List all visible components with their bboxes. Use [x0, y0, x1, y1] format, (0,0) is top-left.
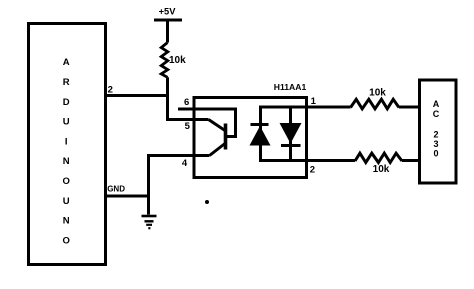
svg-text:6: 6: [184, 97, 189, 108]
LED D2 (pointing down) cathode bar: [281, 144, 301, 147]
LED bridge left rail: [259, 107, 262, 161]
svg-text:+5V: +5V: [159, 6, 177, 16]
opto-isolator U1 H11AA1 box: [194, 98, 307, 178]
svg-text:R: R: [63, 77, 70, 88]
wire ground riser / opto pin 4 (emitter): [149, 156, 210, 215]
svg-text:H11AA1: H11AA1: [274, 82, 307, 92]
wire R2 to AC box: [399, 106, 421, 109]
resistor R3 10k (lower, horizontal zigzag): [355, 153, 402, 162]
Arduino Uno block U-ARD: [29, 24, 106, 265]
svg-text:GND: GND: [107, 185, 125, 194]
transistor Q1 collector diagonal: [209, 120, 226, 131]
wire pin 1 line with top LED bar: [259, 106, 351, 109]
wire node A down to opto pin 5 (collector): [168, 77, 209, 119]
LED D1 (pointing up) triangle: [250, 126, 271, 146]
svg-text:2: 2: [310, 165, 315, 176]
svg-text:4: 4: [182, 158, 188, 169]
wire pin 6 stub and base connection: [178, 109, 236, 137]
svg-text:5: 5: [185, 121, 191, 132]
svg-text:2: 2: [108, 84, 113, 95]
wire +5V to resistor R1: [166, 20, 169, 43]
svg-text:C: C: [433, 109, 440, 119]
svg-text:10k: 10k: [369, 88, 386, 99]
LED D2 (pointing down) triangle: [280, 123, 302, 144]
svg-text:10k: 10k: [373, 164, 390, 175]
wire R3 to AC box: [402, 159, 421, 162]
svg-text:0: 0: [433, 149, 438, 159]
AC 230 source block: [420, 80, 457, 183]
svg-text:2: 2: [433, 130, 438, 140]
svg-text:N: N: [63, 216, 70, 227]
svg-text:10k: 10k: [169, 55, 186, 66]
svg-text:N: N: [63, 156, 70, 167]
svg-text:1: 1: [311, 96, 317, 107]
svg-text:O: O: [63, 236, 70, 247]
svg-text:U: U: [63, 196, 70, 207]
svg-text:3: 3: [433, 139, 438, 149]
wire GND pin of Arduino: [106, 195, 149, 198]
wire pin 2 line with bottom LED bar: [259, 159, 355, 162]
stray dot mark: [205, 200, 209, 204]
transistor Q1 emitter diagonal: [210, 144, 226, 156]
resistor R1 10k pull-up (vertical zigzag): [161, 43, 168, 78]
LED bridge right rail: [289, 107, 292, 161]
svg-text:I: I: [65, 136, 68, 147]
svg-text:U: U: [63, 117, 70, 128]
power +5V rail bar: [154, 19, 182, 22]
resistor R2 10k (upper, horizontal zigzag): [351, 99, 400, 109]
LED D1 (pointing up) cathode bar: [251, 123, 269, 126]
wire pin2 to node A: [106, 94, 169, 97]
svg-text:O: O: [63, 176, 70, 187]
svg-text:A: A: [63, 57, 70, 68]
svg-text:D: D: [63, 97, 70, 108]
ground symbol: [142, 216, 157, 228]
svg-text:A: A: [433, 99, 440, 109]
transistor Q1 base bar: [224, 124, 228, 150]
